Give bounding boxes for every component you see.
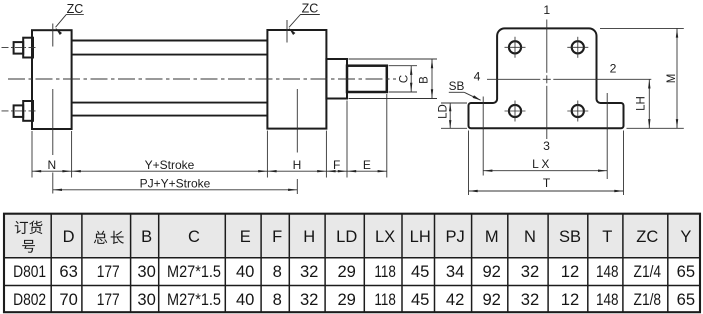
svg-text:29: 29: [337, 262, 355, 281]
svg-text:N: N: [524, 228, 536, 246]
svg-text:70: 70: [59, 290, 77, 309]
svg-text:N: N: [47, 158, 56, 172]
svg-text:LD: LD: [336, 228, 357, 246]
svg-text:ZC: ZC: [636, 228, 658, 246]
svg-text:29: 29: [337, 290, 355, 309]
svg-text:T: T: [543, 176, 551, 190]
svg-text:H: H: [303, 228, 315, 246]
svg-text:SB: SB: [559, 228, 581, 246]
svg-text:1: 1: [543, 3, 550, 17]
svg-text:M27*1.5: M27*1.5: [167, 262, 221, 281]
svg-text:F: F: [272, 228, 282, 246]
svg-text:C: C: [399, 75, 411, 83]
svg-text:Z1/4: Z1/4: [634, 262, 662, 281]
svg-text:M: M: [485, 228, 499, 246]
svg-text:D: D: [63, 228, 75, 246]
svg-text:D801: D801: [13, 262, 46, 281]
svg-text:30: 30: [137, 262, 155, 281]
svg-text:PJ: PJ: [445, 228, 464, 246]
svg-text:118: 118: [374, 290, 396, 309]
svg-text:LX: LX: [532, 157, 552, 171]
svg-text:LH: LH: [410, 228, 431, 246]
svg-text:LD: LD: [438, 104, 450, 119]
svg-text:4: 4: [474, 70, 481, 84]
svg-text:SB: SB: [449, 79, 465, 93]
svg-text:LH: LH: [636, 96, 648, 111]
svg-text:8: 8: [273, 290, 282, 309]
svg-text:30: 30: [137, 290, 155, 309]
svg-text:12: 12: [561, 262, 579, 281]
svg-text:8: 8: [273, 262, 282, 281]
svg-text:Y+Stroke: Y+Stroke: [145, 158, 195, 172]
svg-text:65: 65: [677, 262, 695, 281]
svg-text:118: 118: [374, 262, 396, 281]
svg-text:ZC: ZC: [302, 2, 319, 16]
svg-text:63: 63: [59, 262, 77, 281]
svg-text:Y: Y: [680, 228, 691, 246]
svg-text:40: 40: [236, 290, 254, 309]
svg-text:65: 65: [677, 290, 695, 309]
svg-text:40: 40: [236, 262, 254, 281]
svg-text:Z1/8: Z1/8: [634, 290, 662, 309]
svg-text:H: H: [293, 158, 302, 172]
svg-text:LX: LX: [375, 228, 395, 246]
svg-text:C: C: [188, 228, 200, 246]
svg-text:92: 92: [482, 290, 500, 309]
svg-text:177: 177: [97, 290, 120, 309]
svg-text:34: 34: [446, 262, 464, 281]
svg-text:148: 148: [596, 290, 619, 309]
svg-text:177: 177: [97, 262, 120, 281]
svg-text:D802: D802: [13, 290, 46, 309]
svg-text:45: 45: [411, 290, 429, 309]
svg-text:B: B: [141, 228, 152, 246]
svg-text:148: 148: [596, 262, 619, 281]
svg-text:B: B: [418, 76, 430, 84]
svg-text:E: E: [240, 228, 251, 246]
svg-text:ZC: ZC: [67, 2, 84, 16]
svg-text:F: F: [333, 158, 340, 172]
svg-text:PJ+Y+Stroke: PJ+Y+Stroke: [140, 177, 211, 191]
svg-text:45: 45: [411, 262, 429, 281]
svg-text:32: 32: [300, 290, 318, 309]
svg-text:12: 12: [561, 290, 579, 309]
svg-text:32: 32: [521, 262, 539, 281]
svg-text:32: 32: [300, 262, 318, 281]
svg-text:42: 42: [446, 290, 464, 309]
svg-text:3: 3: [543, 139, 550, 153]
svg-text:92: 92: [482, 262, 500, 281]
svg-text:T: T: [602, 228, 612, 246]
svg-text:M: M: [666, 74, 678, 84]
svg-text:32: 32: [521, 290, 539, 309]
svg-text:2: 2: [610, 61, 617, 75]
svg-text:M27*1.5: M27*1.5: [167, 290, 221, 309]
svg-text:E: E: [363, 158, 371, 172]
